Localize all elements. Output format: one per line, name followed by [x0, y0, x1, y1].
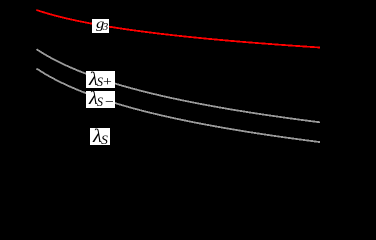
label g3: [92, 19, 109, 33]
label lambda_S: [90, 128, 110, 145]
label lambda_S+: [86, 71, 114, 88]
label lambda_S-: [86, 91, 115, 108]
curve lambda_S+ (upper gray running curve): [37, 49, 321, 122]
curve lambda_S- (lower gray running curve): [37, 69, 321, 142]
curve g3 (red gauge-coupling running curve): [37, 10, 321, 48]
